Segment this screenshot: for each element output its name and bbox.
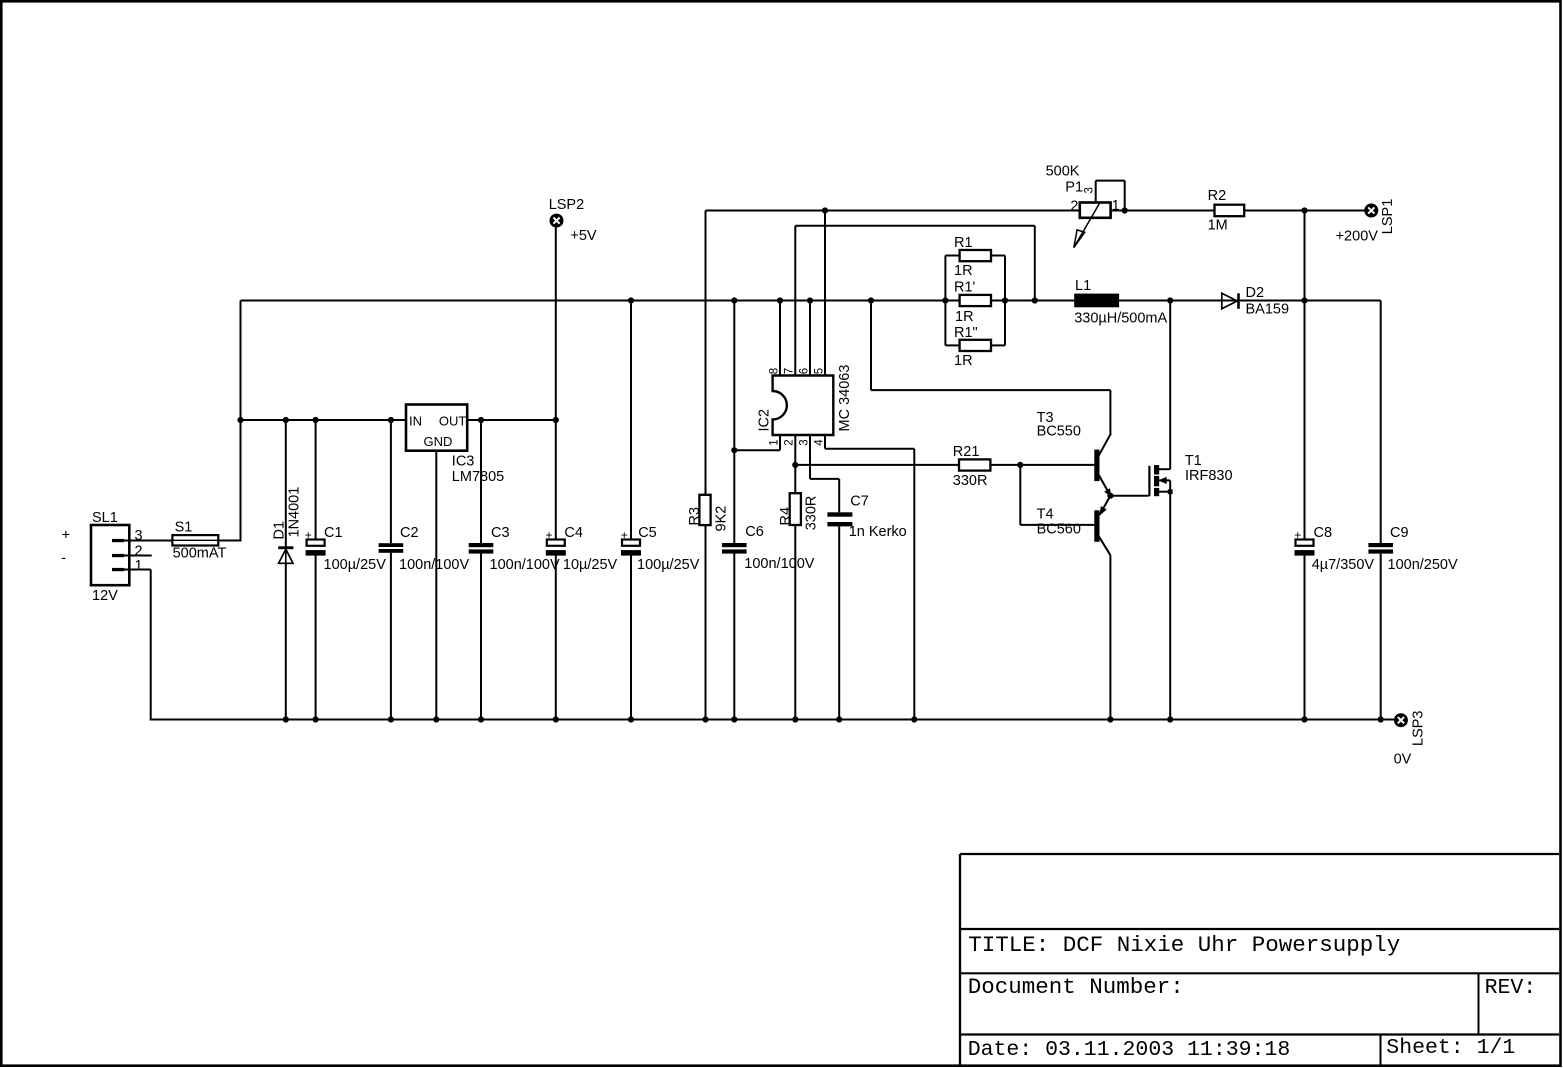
svg-text:0V: 0V	[1394, 751, 1412, 767]
junction C7 at ground	[836, 716, 842, 722]
terminal LSP3 symbol	[1394, 713, 1408, 727]
svg-text:LSP3: LSP3	[1411, 711, 1427, 746]
junction pin8 at 12V bus	[777, 297, 783, 303]
svg-text:IC2: IC2	[756, 409, 772, 432]
svg-text:12V: 12V	[92, 588, 118, 604]
junction C2 at ground	[388, 716, 394, 722]
svg-text:C1: C1	[324, 525, 343, 541]
mosfet T1 source wire	[1159, 491, 1170, 493]
diode D2 symbol	[1222, 293, 1237, 309]
wire T4 collector to ground	[1109, 555, 1111, 719]
junction T4 collector at ground	[1107, 716, 1113, 722]
transistor T4 base bar	[1094, 510, 1099, 542]
svg-text:330µH/500mA: 330µH/500mA	[1074, 310, 1167, 326]
resistor R2 body	[1215, 205, 1245, 217]
svg-text:500mAT: 500mAT	[173, 545, 227, 561]
title block separator above Date row	[960, 1033, 1559, 1035]
connector SL1 pin 1	[112, 568, 124, 571]
wire fuse S1 to riser	[218, 540, 240, 542]
wire IC3 GND to ground	[435, 451, 437, 720]
wire IC2 pin 8 to 12V bus	[779, 301, 781, 376]
junction C4 branch at OUT rail	[553, 417, 559, 423]
svg-text:GND: GND	[424, 434, 453, 449]
junction T1 drain at 12V bus	[1167, 297, 1173, 303]
wire R1'' bottom leads	[945, 344, 959, 346]
svg-text:+: +	[62, 526, 71, 543]
svg-text:R21: R21	[953, 444, 980, 460]
svg-text:L1: L1	[1075, 278, 1091, 294]
wire R1 stack right rail	[1004, 256, 1006, 346]
svg-text:100n/250V: 100n/250V	[1388, 557, 1458, 573]
wire 12V bus	[241, 300, 1381, 302]
junction C5 at ground	[628, 716, 634, 722]
wire SL1 pin2 stub	[124, 555, 152, 557]
transistor T4 emitter with arrow to base	[1100, 496, 1111, 515]
svg-text:C7: C7	[850, 493, 869, 509]
capacitor C1 plates (polarized)	[307, 540, 325, 546]
diode D1 symbol	[278, 546, 293, 549]
capacitor C4 plates (polarized)	[547, 540, 565, 546]
wire R21 to T3 base	[990, 464, 1094, 466]
junction C1 at ground	[313, 716, 319, 722]
svg-text:+: +	[305, 528, 312, 542]
mosfet T1 drain wire	[1159, 468, 1170, 470]
resistor R21 body	[959, 459, 990, 470]
junction P1 pin1/pin3 at top line	[1122, 207, 1128, 213]
junction D2 output node	[1301, 297, 1307, 303]
wire R1 stack left rail	[944, 256, 946, 346]
wire IC2 pin 6 to 12V bus	[809, 301, 811, 376]
wire pin7 line down to 12V bus	[1034, 226, 1036, 301]
capacitor C7 plates	[827, 512, 852, 516]
svg-text:4µ7/350V: 4µ7/350V	[1312, 557, 1375, 573]
resistor R4 body	[790, 493, 801, 525]
wire IN rail (12V to 7805)	[241, 419, 407, 421]
svg-text:4: 4	[813, 439, 825, 446]
capacitor C6 branch wire	[733, 301, 735, 544]
svg-text:IN: IN	[409, 413, 422, 428]
junction C6 at ground	[731, 716, 737, 722]
title block Sheet divider	[1380, 1035, 1382, 1066]
junction R1 right rail at 12V bus	[1002, 297, 1008, 303]
svg-text:100n/100V: 100n/100V	[399, 557, 469, 573]
resistor R1'' body	[960, 340, 991, 351]
wire R2 to LSP1	[1244, 210, 1364, 212]
svg-text:OUT: OUT	[439, 413, 467, 428]
junction D1 at ground	[283, 716, 289, 722]
svg-text:LSP2: LSP2	[549, 197, 584, 213]
junction C2 at IN rail	[388, 417, 394, 423]
svg-text:R3: R3	[687, 507, 703, 526]
svg-text:1M: 1M	[1208, 217, 1228, 233]
wire OUT rail (5V)	[467, 419, 556, 421]
connector SL1 body	[91, 525, 129, 585]
junction T4 branch on base line	[1017, 462, 1023, 468]
svg-text:LM7805: LM7805	[452, 469, 504, 485]
svg-text:8: 8	[768, 368, 780, 374]
svg-text:IC3: IC3	[452, 454, 475, 470]
svg-text:D2: D2	[1246, 285, 1265, 301]
mosfet T1 channel segments	[1154, 465, 1159, 474]
wire R1 top leads	[945, 255, 959, 257]
wire IC2 pin 3 to C7	[809, 435, 811, 479]
svg-text:BA159: BA159	[1246, 302, 1290, 318]
svg-text:SL1: SL1	[92, 510, 118, 526]
junction T3 feed at 12V bus	[868, 297, 874, 303]
wire P1 pin3 loop	[1095, 181, 1097, 203]
svg-text:T4: T4	[1037, 507, 1054, 523]
svg-text:1: 1	[1112, 198, 1120, 214]
junction pin7 line at 12V bus	[1032, 297, 1038, 303]
wire pin2 to R21	[795, 464, 959, 466]
junction R1 left rail at 12V bus	[942, 297, 948, 303]
svg-text:100µ/25V: 100µ/25V	[324, 557, 387, 573]
svg-text:1: 1	[768, 439, 780, 445]
capacitor C9 plates	[1368, 543, 1393, 547]
junction C4 at ground	[553, 716, 559, 722]
wire IC2 pin 1 to C6 branch	[779, 435, 781, 450]
wire resistor R3 branch vertical	[705, 211, 707, 495]
transistor T3 collector	[1099, 434, 1111, 457]
svg-text:100µ/25V: 100µ/25V	[637, 557, 700, 573]
svg-text:6: 6	[798, 368, 810, 374]
svg-text:C9: C9	[1390, 525, 1409, 541]
svg-text:MC 34063: MC 34063	[837, 365, 853, 432]
junction C3 at ground	[478, 716, 484, 722]
capacitor C2 branch wire	[390, 420, 392, 543]
wire SL1 pin1 to ground bus	[124, 569, 151, 571]
svg-text:1R: 1R	[954, 353, 973, 369]
capacitor C2 plates	[379, 543, 404, 547]
voltage regulator IC3 body	[406, 405, 467, 451]
svg-text:1n Kerko: 1n Kerko	[849, 524, 907, 540]
title block separator below TITLE row	[960, 972, 1559, 974]
svg-text:T1: T1	[1185, 453, 1202, 469]
wire IC2 pin 4 to ground	[824, 435, 826, 449]
svg-text:500K: 500K	[1046, 164, 1080, 180]
junction pin5 at feedback line	[822, 207, 828, 213]
svg-text:R1: R1	[954, 235, 973, 251]
svg-text:-: -	[61, 550, 66, 567]
junction pin6 at 12V bus	[807, 297, 813, 303]
junction R3 at ground	[702, 716, 708, 722]
svg-text:TITLE: DCF Nixie Uhr Powersupp: TITLE: DCF Nixie Uhr Powersupply	[968, 932, 1400, 958]
capacitor C5 plates (polarized)	[622, 540, 640, 546]
junction T1 source at ground	[1167, 716, 1173, 722]
wire output corner down	[1380, 301, 1382, 544]
capacitor C8 branch wire	[1304, 211, 1306, 540]
mosfet T1 source-body junction square	[1168, 489, 1173, 494]
svg-text:1R: 1R	[954, 263, 973, 279]
junction C8 at ground	[1301, 716, 1307, 722]
svg-text:2: 2	[135, 543, 143, 559]
svg-text:100n/100V: 100n/100V	[744, 556, 814, 572]
transistor T3 emitter with arrow	[1099, 475, 1111, 496]
svg-text:5: 5	[813, 368, 825, 374]
svg-text:+200V: +200V	[1336, 229, 1379, 245]
svg-text:3: 3	[798, 439, 810, 445]
svg-text:R2: R2	[1208, 188, 1227, 204]
terminal LSP1 symbol	[1364, 204, 1378, 218]
junction C8 riser at top line	[1301, 207, 1307, 213]
wire IC2 pin 2 down	[794, 435, 796, 493]
inductor L1 body	[1074, 294, 1119, 308]
potentiometer P1 wiper arrow	[1074, 203, 1100, 248]
resistor R3 body	[699, 495, 710, 525]
resistor R1' body (on bus)	[960, 295, 991, 306]
svg-text:C4: C4	[564, 525, 583, 541]
wire feedback top line	[706, 210, 1080, 212]
junction pin2 at R21 line	[792, 462, 798, 468]
svg-text:+5V: +5V	[570, 228, 597, 244]
svg-text:330R: 330R	[953, 473, 988, 489]
svg-text:2: 2	[1070, 199, 1078, 215]
svg-text:1: 1	[135, 558, 143, 574]
capacitor C6 plates	[722, 543, 747, 547]
wire ground bus	[150, 719, 1395, 721]
svg-text:C6: C6	[745, 524, 764, 540]
svg-text:IRF830: IRF830	[1185, 468, 1233, 484]
junction C9 at ground	[1378, 716, 1384, 722]
resistor R1 body	[960, 250, 991, 261]
capacitor C1 branch wire	[315, 420, 317, 540]
svg-text:Document Number:: Document Number:	[968, 974, 1184, 1000]
title block REV divider	[1478, 973, 1480, 1034]
svg-text:LSP1: LSP1	[1380, 199, 1396, 234]
svg-text:R4: R4	[778, 507, 794, 526]
junction pin4 at ground	[911, 716, 917, 722]
svg-text:BC550: BC550	[1037, 424, 1081, 440]
mosfet T1 gate bar	[1148, 466, 1150, 496]
svg-text:C3: C3	[491, 525, 510, 541]
wire P1 to R2	[1111, 210, 1215, 212]
junction C3 at OUT rail	[478, 417, 484, 423]
svg-text:3: 3	[135, 528, 143, 544]
wire C7 to ground	[838, 526, 840, 719]
junction R4 at ground	[792, 716, 798, 722]
connector SL1 pin 2	[112, 554, 124, 557]
junction IC3 GND at ground	[433, 716, 439, 722]
svg-text:R1": R1"	[954, 325, 978, 341]
junction C1 at IN rail	[313, 417, 319, 423]
junction C5 at 12V bus	[628, 297, 634, 303]
svg-text:7: 7	[784, 368, 796, 374]
wire SL1 pin3 to fuse S1	[124, 540, 173, 542]
svg-text:330R: 330R	[803, 496, 819, 531]
wire IC2 pin 5 up to feedback line	[824, 211, 826, 376]
svg-text:Sheet: 1/1: Sheet: 1/1	[1386, 1036, 1515, 1060]
junction D1 at IN rail	[283, 417, 289, 423]
fuse S1 body	[172, 535, 218, 545]
capacitor C5 branch wire	[630, 301, 632, 540]
terminal LSP2 symbol	[550, 214, 564, 228]
svg-text:10µ/25V: 10µ/25V	[563, 557, 618, 573]
potentiometer P1 body	[1080, 203, 1111, 218]
wire 12V bus to T3 collector	[870, 301, 872, 391]
svg-text:REV:: REV:	[1485, 976, 1537, 1000]
wire riser to 12V bus	[240, 301, 242, 542]
junction pin1 at C6 branch	[731, 447, 737, 453]
capacitor C3 branch wire	[480, 420, 482, 543]
svg-text:+: +	[1294, 528, 1301, 542]
IC2 body with pin1 notch	[773, 376, 834, 436]
wire emitter node to T1 gate	[1110, 495, 1148, 497]
svg-text:S1: S1	[175, 519, 193, 535]
wire IC2 pin 7 up	[794, 226, 796, 376]
title block outline	[960, 853, 1559, 855]
transistor T4 collector	[1099, 536, 1111, 555]
mosfet T1 body arrow	[1159, 479, 1170, 481]
junction IN rail at riser	[237, 417, 243, 423]
wire LSP2 / C4 branch	[555, 227, 557, 539]
svg-text:1R: 1R	[955, 309, 974, 325]
svg-text:D1: D1	[271, 521, 287, 540]
svg-text:C5: C5	[638, 525, 657, 541]
junction C6 at 12V bus	[731, 297, 737, 303]
title block separator above TITLE row	[960, 928, 1559, 930]
transistor T3 base bar	[1094, 450, 1099, 482]
junction emitter node	[1107, 493, 1113, 499]
svg-text:R1': R1'	[954, 280, 976, 296]
svg-text:BC560: BC560	[1037, 521, 1081, 537]
svg-text:1N4001: 1N4001	[287, 487, 303, 538]
svg-text:3: 3	[1083, 187, 1095, 193]
capacitor C3 plates	[469, 543, 494, 547]
diode D1 branch wire	[285, 420, 287, 547]
wire C9 to ground	[1380, 554, 1382, 720]
svg-text:C8: C8	[1314, 525, 1333, 541]
svg-text:+: +	[545, 528, 552, 542]
svg-text:+: +	[621, 528, 628, 542]
svg-text:100n/100V: 100n/100V	[490, 557, 560, 573]
connector SL1 pin 3	[112, 539, 124, 542]
capacitor C8 plates (polarized)	[1296, 540, 1314, 546]
wire R4 to ground	[794, 525, 796, 720]
svg-text:Date: 03.11.2003 11:39:18: Date: 03.11.2003 11:39:18	[968, 1038, 1291, 1062]
wire T4 base branch	[1019, 465, 1021, 525]
svg-text:C2: C2	[400, 525, 419, 541]
wire pin7 horizontal line	[795, 225, 1035, 227]
svg-text:2: 2	[784, 439, 796, 445]
svg-text:9K2: 9K2	[713, 506, 729, 532]
svg-text:P1: P1	[1065, 180, 1083, 196]
